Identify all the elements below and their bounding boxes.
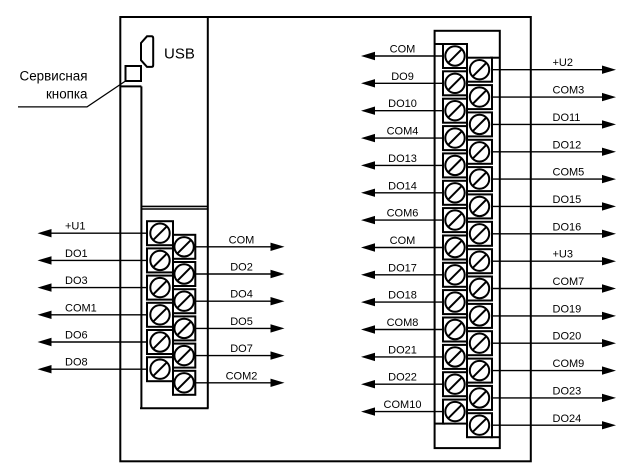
svg-text:COM8: COM8 (387, 317, 419, 329)
terminal block X2 housing (435, 31, 500, 448)
terminal +U2 (467, 58, 492, 82)
svg-text:DO22: DO22 (388, 372, 417, 384)
svg-text:USB: USB (164, 45, 195, 62)
wire +U3 (484, 257, 616, 265)
X2 housing step lines (435, 44, 500, 437)
wire +U1 (38, 229, 153, 237)
device outline (120, 17, 531, 461)
svg-text:DO14: DO14 (388, 180, 417, 192)
wire DO23 (484, 394, 616, 402)
svg-text:DO9: DO9 (391, 71, 414, 83)
svg-text:DO5: DO5 (230, 316, 253, 328)
wire COM10 (361, 407, 450, 415)
wire DO1 (38, 256, 153, 264)
terminal COM4 (443, 126, 467, 150)
wire +U2 (484, 66, 616, 74)
wire COM (192, 243, 285, 251)
svg-text:DO21: DO21 (388, 344, 417, 356)
svg-text:COM5: COM5 (553, 167, 585, 179)
wire DO9 (361, 79, 450, 87)
svg-text:COM9: COM9 (553, 358, 585, 370)
svg-text:COM10: COM10 (384, 399, 422, 411)
svg-text:DO24: DO24 (553, 413, 582, 425)
wire DO14 (361, 189, 450, 197)
wire COM6 (361, 216, 450, 224)
wire DO24 (484, 421, 616, 429)
wire COM1 (38, 311, 153, 319)
svg-text:DO1: DO1 (65, 248, 88, 260)
wire COM3 (484, 93, 616, 101)
terminal DO20 (467, 331, 492, 355)
terminal DO6 (147, 330, 173, 354)
wire DO7 (192, 351, 285, 359)
svg-text:COM: COM (229, 234, 255, 246)
wire DO21 (361, 353, 450, 361)
wire DO2 (192, 270, 285, 278)
svg-text:DO12: DO12 (553, 139, 582, 151)
wire DO17 (361, 271, 450, 279)
svg-text:COM: COM (390, 235, 416, 247)
terminal DO24 (467, 413, 492, 437)
wire COM7 (484, 284, 616, 292)
wire COM9 (484, 366, 616, 374)
svg-text:DO2: DO2 (230, 262, 253, 274)
svg-text:+U1: +U1 (65, 221, 86, 233)
terminal DO4 (173, 289, 195, 313)
terminal DO11 (467, 112, 492, 136)
wire COM8 (361, 325, 450, 333)
terminal +U3 (467, 249, 492, 273)
terminal DO2 (173, 262, 195, 286)
wire COM5 (484, 175, 616, 183)
svg-text:COM4: COM4 (387, 126, 419, 138)
svg-text:DO11: DO11 (553, 112, 581, 124)
inner divider wall (207, 17, 209, 408)
label Сервисная кнопка (20, 68, 88, 101)
wire DO20 (484, 339, 616, 347)
svg-text:DO23: DO23 (553, 385, 582, 397)
wire DO19 (484, 312, 616, 320)
wire DO5 (192, 324, 285, 332)
terminal COM5 (467, 167, 492, 191)
terminal DO1 (147, 248, 173, 272)
terminal DO23 (467, 386, 492, 410)
svg-text:COM1: COM1 (65, 302, 97, 314)
wire COM (361, 243, 450, 251)
terminal COM (173, 235, 195, 259)
wire DO22 (361, 380, 450, 388)
svg-text:COM6: COM6 (387, 208, 419, 220)
terminal DO22 (443, 372, 467, 396)
svg-text:DO16: DO16 (553, 221, 582, 233)
terminal +U1 (147, 221, 173, 245)
terminal DO19 (467, 304, 492, 328)
terminal DO7 (173, 344, 195, 368)
wire DO18 (361, 298, 450, 306)
terminal block X1 housing (140, 206, 209, 408)
terminal COM2 (173, 371, 195, 395)
terminal COM10 (443, 400, 467, 424)
svg-text:DO7: DO7 (230, 343, 253, 355)
terminal DO8 (147, 357, 173, 381)
svg-text:кнопка: кнопка (46, 87, 88, 102)
wire DO6 (38, 338, 153, 346)
terminal DO18 (443, 290, 467, 314)
terminal COM3 (467, 85, 492, 109)
terminal DO9 (443, 71, 467, 95)
terminal DO14 (443, 181, 467, 205)
svg-text:DO6: DO6 (65, 330, 88, 342)
terminal COM9 (467, 359, 492, 383)
wire DO3 (38, 283, 153, 291)
terminal DO17 (443, 263, 467, 287)
wire DO10 (361, 107, 450, 115)
terminal DO15 (467, 194, 492, 218)
wire DO11 (484, 120, 616, 128)
terminal COM8 (443, 318, 467, 342)
svg-text:+U2: +U2 (553, 57, 574, 69)
terminal DO16 (467, 222, 492, 246)
wire COM4 (361, 134, 450, 142)
svg-text:COM2: COM2 (226, 370, 258, 382)
terminal DO5 (173, 316, 195, 340)
svg-text:DO8: DO8 (65, 357, 88, 369)
wire DO16 (484, 230, 616, 238)
svg-text:DO3: DO3 (65, 275, 88, 287)
svg-text:DO13: DO13 (388, 153, 417, 165)
svg-text:DO18: DO18 (388, 290, 417, 302)
terminal COM1 (147, 303, 173, 327)
terminal COM7 (467, 277, 492, 301)
svg-text:DO20: DO20 (553, 331, 582, 343)
USB connector J1 (141, 36, 153, 67)
svg-text:DO17: DO17 (388, 262, 417, 274)
callout leader line (18, 81, 126, 107)
terminal DO12 (467, 140, 492, 164)
wire COM2 (192, 379, 285, 387)
terminal COM6 (443, 208, 467, 232)
wire COM (361, 52, 450, 60)
svg-text:+U3: +U3 (553, 249, 574, 261)
wire DO8 (38, 365, 153, 373)
terminal COM (443, 44, 467, 68)
svg-text:DO4: DO4 (230, 289, 253, 301)
svg-text:Сервисная: Сервисная (20, 68, 88, 83)
svg-text:DO10: DO10 (388, 98, 417, 110)
service button SB1 (126, 66, 142, 81)
terminal DO21 (443, 345, 467, 369)
service compartment wall (120, 86, 141, 408)
wire DO13 (361, 161, 450, 169)
wire DO12 (484, 148, 616, 156)
wire DO4 (192, 297, 285, 305)
svg-text:DO15: DO15 (553, 194, 582, 206)
svg-text:COM: COM (390, 44, 416, 56)
wire DO15 (484, 202, 616, 210)
svg-text:COM7: COM7 (553, 276, 585, 288)
terminal DO3 (147, 276, 173, 300)
terminal DO13 (443, 153, 467, 177)
svg-text:COM3: COM3 (553, 85, 585, 97)
svg-text:DO19: DO19 (553, 303, 582, 315)
terminal COM (443, 236, 467, 260)
terminal DO10 (443, 99, 467, 123)
